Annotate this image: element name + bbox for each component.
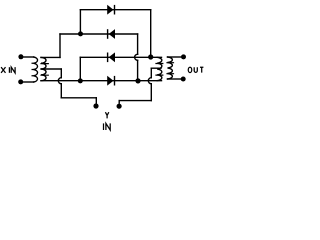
junction dot D4 row / D3 vertical — [78, 78, 83, 83]
terminal dot X IN top — [18, 54, 23, 59]
wire T2 secondary top lead — [168, 56, 181, 58]
transformer T1 primary winding ticks — [32, 63, 34, 76]
transformer T2 primary winding stubs — [156, 64, 163, 76]
wire T1 secondary center tap lead — [41, 68, 61, 70]
transformer T1 primary winding — [34, 57, 38, 82]
label OUT — [188, 67, 192, 72]
wire Y2 horizontal stub — [119, 100, 151, 102]
wire Y1 drop to terminal — [95, 98, 97, 103]
junction dot D4 row / D2 vertical — [135, 78, 140, 83]
wire T1 secondary top lead — [41, 56, 60, 58]
diode D2 — [109, 29, 115, 39]
terminal dot Y IN left — [93, 103, 98, 108]
wire hop (no connection) over D4 row — [148, 78, 151, 84]
transformer T2 primary winding — [157, 57, 162, 80]
wire X IN bottom lead — [23, 81, 33, 83]
diode D3 — [109, 52, 115, 62]
wire Y2 vertical continues — [150, 84, 152, 101]
label IN (bottom) — [103, 123, 105, 130]
label Y — [105, 112, 108, 118]
wire vertical left of D1 row down to D2 row — [79, 10, 81, 34]
wire D4 row — [41, 80, 162, 82]
wire T2 primary center tap lead — [151, 67, 161, 69]
wire D2 row — [60, 33, 138, 35]
terminal dot OUT top — [181, 54, 186, 59]
junction dot D2 row / D1 vertical — [78, 31, 83, 36]
wire D3 row — [80, 56, 161, 58]
wire Y2 vertical from T2 center tap with hop over D4 row — [150, 68, 152, 78]
wire vertical right of D1 row down to D3 row — [150, 10, 152, 58]
wire T2 secondary bottom lead — [168, 78, 181, 80]
transformer T2 secondary winding — [168, 57, 173, 79]
wire D2 vertical continues to D4 row — [137, 60, 139, 80]
wire Y1 vertical from center tap with hop over D4 row — [60, 69, 62, 78]
terminal dot X IN bottom — [18, 79, 23, 84]
wire vertical from D3 row corner down to D4 row — [79, 57, 81, 80]
transformer T1 secondary winding stubs — [41, 64, 48, 76]
wire X IN top lead — [24, 56, 34, 58]
label X IN — [1, 67, 5, 73]
wire hop (no connection) over D4 row — [58, 78, 61, 84]
wire from D2 row down to T1 secondary top lead — [59, 34, 61, 57]
wire D2 right vertical with hop over D3 row — [137, 34, 139, 54]
transformer T2 secondary winding stubs — [167, 63, 174, 74]
wire Y1 vertical continues — [60, 84, 62, 98]
wire hop (no connection) over D3 row — [135, 54, 138, 60]
diode D1 — [107, 5, 113, 15]
terminal dot OUT bottom — [181, 77, 186, 82]
junction dot D3 row / D1 vertical — [148, 54, 153, 59]
wire Y1 horizontal stub — [61, 97, 96, 99]
diode D4 — [107, 76, 113, 86]
transformer T1 secondary winding — [41, 57, 46, 80]
wire top D1 row — [80, 9, 150, 11]
wire Y2 drop to terminal — [118, 101, 120, 104]
terminal dot Y IN right — [117, 104, 122, 109]
